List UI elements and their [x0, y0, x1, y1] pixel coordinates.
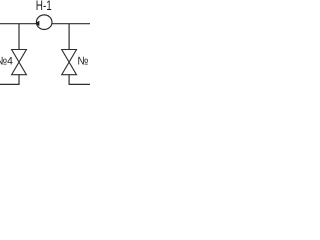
svg-text:№: № [77, 55, 88, 67]
wire right stub [68, 75, 70, 85]
pump flow triangle [36, 21, 40, 26]
svg-text:Н-1: Н-1 [36, 0, 52, 13]
wire left branch [18, 24, 20, 50]
wire top-left pipe [0, 23, 37, 25]
valve N5 [62, 50, 77, 75]
wire left stub [18, 75, 20, 85]
wire right branch [68, 24, 70, 50]
pump H-1 circle [36, 15, 52, 30]
svg-text:№4: №4 [0, 55, 13, 67]
wire top-right pipe [52, 23, 90, 25]
wire bottom-left pipe [0, 83, 20, 85]
wire bottom-right pipe [69, 83, 91, 85]
valve N4 [12, 50, 27, 75]
